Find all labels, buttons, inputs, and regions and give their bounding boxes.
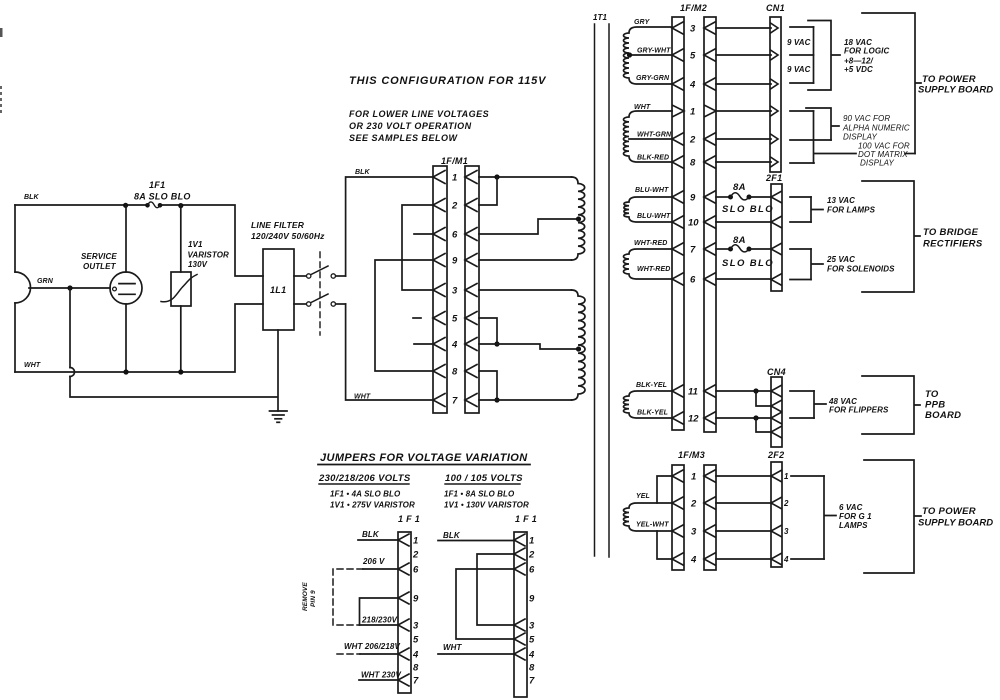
connector 1F/M3 right strip: [704, 465, 716, 570]
svg-text:FOR LOGIC: FOR LOGIC: [844, 47, 889, 56]
label TO POWER SUPPLY BOARD bottom: [918, 506, 993, 529]
svg-text:2: 2: [690, 499, 697, 510]
switch S2: [294, 294, 346, 306]
wire CN1 pin 5 right: [790, 54, 814, 56]
wire 2F1 pin 9 right: [790, 196, 811, 198]
svg-text:1: 1: [529, 536, 534, 547]
svg-text:4: 4: [528, 650, 535, 661]
svg-text:GRY-WHT: GRY-WHT: [637, 48, 671, 55]
svg-text:REMOVE: REMOVE: [302, 582, 309, 611]
svg-text:+5 VDC: +5 VDC: [844, 65, 873, 74]
connector 1F/M3 left strip: [672, 465, 684, 570]
connector 1F1 left pin numbers: [412, 536, 419, 687]
svg-text:SEE SAMPLES BELOW: SEE SAMPLES BELOW: [349, 133, 459, 143]
wire CN1 pin 2 right: [790, 139, 831, 141]
svg-text:2: 2: [689, 135, 696, 146]
bracket 90VAC: [806, 108, 839, 140]
svg-text:BLK: BLK: [443, 531, 461, 540]
svg-text:BLK: BLK: [355, 169, 371, 176]
primary winding upper: [572, 177, 585, 260]
svg-text:1F/M2: 1F/M2: [680, 3, 707, 13]
wire 1F/M2 pin 5 to CN1: [716, 50, 778, 60]
svg-text:6 VAC: 6 VAC: [839, 503, 863, 512]
jumper 1F/M3 pins 1-2: [657, 476, 672, 503]
svg-text:8A: 8A: [733, 182, 746, 193]
secondary winding WHT-RED: [624, 249, 673, 279]
wire 1F/M3 pin 3 to 2F2: [716, 530, 771, 532]
tap GRY-WHT: [627, 52, 672, 57]
secondary winding YEL: [624, 503, 673, 531]
svg-text:9: 9: [529, 594, 535, 605]
svg-text:WHT: WHT: [443, 643, 463, 652]
subtitle lower line voltages: [349, 109, 489, 143]
svg-text:1V1 • 275V VARISTOR: 1V1 • 275V VARISTOR: [330, 501, 415, 510]
branch CN4 pin 4: [756, 418, 771, 432]
lead dot matrix to bracket: [905, 153, 915, 155]
connector 1F/M1 left strip: [433, 166, 447, 413]
svg-text:1F1 • 8A SLO BLO: 1F1 • 8A SLO BLO: [444, 490, 515, 499]
wire 206V pin 6: [363, 568, 398, 570]
svg-text:DISPLAY: DISPLAY: [860, 159, 894, 168]
svg-text:FOR SOLENOIDS: FOR SOLENOIDS: [827, 265, 895, 274]
svg-text:9 VAC: 9 VAC: [787, 38, 811, 47]
bracket 25VAC: [811, 249, 823, 280]
svg-text:1F/M3: 1F/M3: [678, 450, 705, 460]
svg-text:2: 2: [528, 550, 535, 561]
svg-text:5: 5: [452, 314, 458, 325]
connector 1F/M3 pin numbers: [690, 472, 697, 566]
label 6 VAC FOR G1 LAMPS: [839, 503, 872, 530]
label 48VAC FOR FLIPPERS: [828, 397, 889, 415]
svg-text:2: 2: [412, 550, 419, 561]
svg-text:GRY-GRN: GRY-GRN: [636, 75, 670, 82]
svg-text:206 V: 206 V: [362, 557, 385, 566]
svg-text:2F1: 2F1: [765, 173, 782, 183]
wire BLK top: [15, 203, 263, 276]
wire 1F/M2 pin 4 to CN1: [716, 79, 778, 89]
svg-text:1: 1: [413, 536, 418, 547]
wire GRN: [29, 285, 278, 397]
connector 1F/M1 right strip: [465, 166, 479, 413]
secondary winding BLK-YEL: [623, 391, 672, 418]
wire 1F/M2 pin 1 to CN1: [716, 106, 778, 116]
stub 1F/M1 pin 4: [414, 343, 433, 345]
label TO PPB BOARD: [925, 389, 961, 421]
connector 1F/M1 pin numbers: [451, 173, 458, 407]
secondary winding WHT: [624, 111, 673, 162]
svg-text:BLK: BLK: [362, 530, 380, 539]
label 13 VAC FOR LAMPS: [827, 196, 876, 215]
svg-text:WHT-RED: WHT-RED: [634, 240, 667, 247]
wire 1F/M2 pin 6 to 2F1: [716, 278, 771, 280]
svg-text:3: 3: [529, 621, 535, 632]
svg-text:4: 4: [690, 555, 697, 566]
wire 1F/M2 pin 2 to CN1: [716, 134, 778, 144]
label SERVICE OUTLET: [81, 252, 117, 271]
svg-text:LINE FILTER: LINE FILTER: [251, 220, 305, 230]
svg-text:7: 7: [452, 396, 458, 407]
svg-text:2F2: 2F2: [767, 450, 784, 460]
jumper right pins 6-5: [456, 569, 514, 639]
svg-text:1: 1: [784, 472, 789, 481]
svg-text:ALPHA NUMERIC: ALPHA NUMERIC: [842, 124, 910, 133]
wire BLK to left 1F1 pin 1: [358, 539, 398, 541]
svg-text:6: 6: [690, 275, 696, 286]
svg-text:VARISTOR: VARISTOR: [188, 251, 230, 260]
svg-text:6: 6: [529, 565, 535, 576]
svg-text:CN4: CN4: [767, 367, 786, 377]
svg-text:8A: 8A: [733, 235, 746, 246]
tap wire pin 4 to primary lower: [479, 344, 581, 352]
header 230/218/206 VOLTS: [318, 473, 411, 484]
svg-text:GRY: GRY: [634, 19, 651, 26]
fuse 1F1: [145, 202, 162, 208]
svg-text:1F1: 1F1: [149, 180, 165, 190]
wire CN1 pin 4 right: [790, 82, 814, 84]
svg-text:8: 8: [452, 367, 458, 378]
svg-text:7: 7: [690, 245, 696, 256]
wire 2F1 pin 10 right: [790, 221, 811, 223]
bracket TO POWER SUPPLY BOARD bottom: [864, 460, 921, 573]
svg-text:WHT-RED: WHT-RED: [637, 266, 670, 273]
svg-text:FOR G 1: FOR G 1: [839, 512, 872, 521]
tap wire pin 6 to primary upper: [479, 216, 581, 234]
wire WHT to 1F/M1 pin 7: [346, 304, 433, 400]
svg-text:OR 230 VOLT OPERATION: OR 230 VOLT OPERATION: [349, 121, 472, 131]
svg-text:GRN: GRN: [37, 278, 54, 285]
lead 100VAC: [814, 153, 856, 155]
dashed wire pin 6 left: [333, 569, 363, 625]
svg-text:FOR FLIPPERS: FOR FLIPPERS: [829, 406, 889, 415]
connector 1F/M2 middle strip: [704, 17, 716, 432]
wire WHT to right 1F1 pin 4: [438, 653, 514, 655]
svg-text:3: 3: [413, 621, 419, 632]
svg-text:3: 3: [452, 286, 458, 297]
wire WHT 230V pin 7: [359, 679, 398, 681]
wire pins 8-7 jumper: [479, 371, 500, 403]
connector 1F1 right strip: [514, 532, 527, 697]
svg-text:10: 10: [688, 218, 699, 229]
connector 1F/M2 pin numbers: [688, 24, 699, 425]
svg-text:SLO BLO: SLO BLO: [722, 258, 774, 269]
svg-text:PPB: PPB: [925, 400, 945, 411]
line filter 1L1: [263, 249, 294, 330]
jumper pins 1-2 right: [479, 177, 497, 205]
wire 2F1 pin 6 right: [790, 279, 811, 281]
svg-text:YEL: YEL: [636, 493, 650, 500]
svg-text:5: 5: [529, 635, 535, 646]
svg-text:WHT: WHT: [24, 362, 41, 369]
svg-text:90 VAC FOR: 90 VAC FOR: [843, 114, 890, 123]
svg-text:PIN 9: PIN 9: [310, 590, 317, 607]
label 1V1 VARISTOR 130V: [188, 240, 230, 269]
svg-text:4: 4: [412, 650, 419, 661]
svg-text:2: 2: [783, 499, 789, 508]
svg-text:7: 7: [413, 676, 419, 687]
svg-text:4: 4: [689, 80, 696, 91]
bracket 48VAC: [814, 391, 826, 418]
svg-text:DISPLAY: DISPLAY: [843, 133, 877, 142]
svg-text:1L1: 1L1: [270, 285, 286, 295]
varistor 1V1: [161, 205, 197, 372]
svg-text:1 F 1: 1 F 1: [398, 514, 420, 524]
connector CN1 strip: [770, 17, 781, 172]
primary winding lower: [572, 290, 586, 400]
svg-text:TO: TO: [925, 389, 939, 400]
svg-text:BLU-WHT: BLU-WHT: [635, 187, 669, 194]
svg-text:WHT-GRN: WHT-GRN: [637, 132, 672, 139]
svg-text:WHT 206/218V: WHT 206/218V: [344, 642, 400, 651]
svg-text:5: 5: [690, 51, 696, 62]
wire WHT pin 4 left: [360, 653, 398, 655]
wire pin 7 to primary: [479, 399, 572, 401]
svg-text:CN1: CN1: [766, 3, 785, 13]
svg-text:1: 1: [690, 107, 695, 118]
svg-text:3: 3: [691, 527, 697, 538]
svg-text:WHT 230V: WHT 230V: [361, 671, 401, 680]
svg-text:1V1 • 130V VARISTOR: 1V1 • 130V VARISTOR: [444, 501, 529, 510]
scan marks lower: [0, 86, 2, 113]
label TO POWER SUPPLY BOARD top: [918, 74, 993, 96]
label 90 VAC FOR ALPHA NUMERIC DISPLAY: [842, 114, 910, 142]
switch S1: [294, 266, 346, 278]
bracket 18VAC: [808, 21, 840, 91]
svg-text:TO POWER: TO POWER: [922, 506, 976, 517]
dashed interlock line: [319, 252, 321, 335]
bracket TO PPB BOARD: [862, 376, 920, 434]
svg-text:RECTIFIERS: RECTIFIERS: [923, 239, 983, 250]
wire pin 9 to primary: [479, 259, 572, 261]
svg-text:5: 5: [413, 635, 419, 646]
label LINE FILTER 120/240V 50/60Hz: [251, 220, 325, 241]
header 100/105 VOLTS: [445, 473, 523, 484]
svg-text:8: 8: [690, 158, 696, 169]
svg-text:4: 4: [783, 555, 789, 564]
svg-text:3: 3: [784, 527, 789, 536]
wire 1F/M2 pin 3 to CN1: [716, 23, 778, 33]
svg-text:9: 9: [690, 193, 696, 204]
svg-text:9: 9: [452, 256, 458, 267]
svg-text:BLK-YEL: BLK-YEL: [637, 410, 668, 417]
branch CN4 pin 2: [756, 391, 771, 406]
connector 1F/M2 left strip: [672, 17, 684, 430]
svg-text:1: 1: [691, 472, 696, 483]
wire CN1 pin 3 right: [790, 26, 814, 28]
svg-text:13 VAC: 13 VAC: [827, 196, 855, 205]
svg-text:7: 7: [529, 676, 535, 687]
wire pins 5-4 jumper: [479, 318, 500, 347]
svg-text:FOR LAMPS: FOR LAMPS: [827, 206, 876, 215]
wire 1F/M2 pin 7 to fuse: [716, 248, 728, 250]
wire BLK to right 1F1 pin 1: [438, 540, 514, 542]
svg-text:SUPPLY BOARD: SUPPLY BOARD: [918, 518, 993, 529]
svg-text:100 / 105 VOLTS: 100 / 105 VOLTS: [445, 473, 523, 484]
svg-text:FOR LOWER LINE VOLTAGES: FOR LOWER LINE VOLTAGES: [349, 109, 489, 119]
scan mark top: [0, 28, 3, 37]
transformer core lines: [595, 24, 610, 557]
svg-text:TO BRIDGE: TO BRIDGE: [923, 227, 979, 238]
bracket TO POWER SUPPLY BOARD top: [862, 13, 921, 154]
svg-text:9 VAC: 9 VAC: [787, 65, 811, 74]
svg-text:120/240V 50/60Hz: 120/240V 50/60Hz: [251, 231, 325, 241]
wire 1F/M2 pin 10 to 2F1: [716, 221, 771, 223]
connector 2F2 pin numbers: [783, 472, 789, 564]
bracket TO BRIDGE RECTIFIERS: [862, 181, 920, 292]
label 18 VAC FOR LOGIC: [844, 38, 889, 74]
title JUMPERS FOR VOLTAGE VARIATION: [318, 452, 530, 465]
svg-text:YEL-WHT: YEL-WHT: [636, 522, 669, 529]
bracket 6VAC: [824, 476, 836, 559]
svg-text:1V1: 1V1: [188, 240, 203, 249]
svg-text:1 F 1: 1 F 1: [515, 514, 537, 524]
bracket 13VAC: [811, 197, 823, 222]
wire BLK to 1F/M1 pin 1: [346, 177, 433, 276]
svg-text:JUMPERS FOR VOLTAGE VARIATION: JUMPERS FOR VOLTAGE VARIATION: [320, 452, 528, 464]
svg-text:LAMPS: LAMPS: [839, 521, 868, 530]
svg-text:1T1: 1T1: [593, 13, 608, 22]
svg-text:BOARD: BOARD: [925, 410, 961, 421]
jumper 1F/M1 pins 2-3: [402, 205, 433, 290]
bracket 100VAC pins 1-8: [813, 111, 815, 163]
svg-text:BLK-RED: BLK-RED: [637, 155, 669, 162]
wire pin 9 jumper left: [360, 598, 399, 625]
stub 1F/M1 pin 6: [414, 233, 433, 235]
jumper 1F/M3 pins 3-4: [657, 531, 672, 559]
svg-text:230/218/206 VOLTS: 230/218/206 VOLTS: [318, 473, 411, 484]
svg-text:9: 9: [413, 594, 419, 605]
dash 1F/M1 pin 5: [413, 317, 421, 319]
wire CN1 pin 1 right: [790, 110, 814, 112]
svg-text:BLK-YEL: BLK-YEL: [636, 382, 667, 389]
svg-text:SERVICE: SERVICE: [81, 252, 117, 261]
jumper 1F/M1 pins 9-8: [375, 260, 433, 371]
svg-text:218/230V: 218/230V: [361, 616, 398, 625]
connector 1F1 right pin numbers: [528, 536, 535, 687]
svg-text:2: 2: [451, 201, 458, 212]
jumper right pins 2-3: [477, 554, 514, 625]
svg-text:SLO BLO: SLO BLO: [722, 204, 774, 215]
wire CN4 pin 1 right: [790, 390, 814, 392]
wire pin 3 to primary lower: [479, 289, 572, 291]
svg-text:11: 11: [688, 387, 698, 398]
fuse 2F1-A 8A: [728, 193, 771, 200]
svg-text:TO POWER: TO POWER: [922, 74, 976, 85]
svg-text:6: 6: [452, 230, 458, 241]
svg-text:WHT: WHT: [354, 394, 371, 401]
tap WHT-GRN: [629, 138, 672, 140]
connector CN4 strip: [771, 377, 782, 447]
svg-text:25 VAC: 25 VAC: [826, 255, 855, 264]
svg-text:SUPPLY BOARD: SUPPLY BOARD: [918, 85, 993, 96]
svg-text:OUTLET: OUTLET: [83, 262, 117, 271]
svg-text:1: 1: [452, 173, 457, 184]
svg-text:130V: 130V: [188, 260, 208, 269]
wire 1F/M3 pin 2 to 2F2: [716, 502, 771, 504]
wire 1F/M2 pin 9 to fuse: [716, 196, 728, 198]
wire 2F2 pin 1 right: [791, 475, 824, 477]
wire 2F2 pin 4 right: [791, 558, 824, 560]
svg-text:BLU-WHT: BLU-WHT: [637, 213, 671, 220]
service outlet: [110, 205, 142, 372]
svg-text:8: 8: [529, 663, 535, 674]
fuse 2F1-B 8A: [728, 245, 771, 252]
wire 1F/M3 pin 1 to 2F2: [716, 475, 771, 477]
wire 1F/M2 pin 8 to CN1: [716, 157, 778, 167]
svg-text:12: 12: [688, 414, 699, 425]
connector 2F1 strip: [771, 184, 782, 291]
svg-text:3: 3: [690, 24, 696, 35]
AC plug P1: [15, 205, 31, 372]
wire 2F1 pin 7 right: [790, 248, 811, 250]
connector 1F1 left strip: [398, 532, 411, 693]
secondary winding GRY: [624, 27, 673, 84]
svg-text:8A SLO BLO: 8A SLO BLO: [134, 192, 191, 202]
ground: [270, 330, 288, 422]
svg-text:1F1 • 4A SLO BLO: 1F1 • 4A SLO BLO: [330, 490, 401, 499]
svg-text:8: 8: [413, 663, 419, 674]
wire WHT bottom: [15, 304, 263, 375]
svg-text:1F/M1: 1F/M1: [441, 156, 468, 166]
label TO BRIDGE RECTIFIERS: [923, 227, 983, 250]
label 25 VAC FOR SOLENOIDS: [826, 255, 895, 274]
label 100 VAC FOR DOT MATRIX DISPLAY: [858, 142, 910, 168]
wire 1F/M3 pin 4 to 2F2: [716, 558, 771, 560]
wire pin 1 to primary: [479, 174, 572, 179]
svg-text:BLK: BLK: [24, 194, 40, 201]
label REMOVE PIN 9: [302, 582, 317, 611]
svg-text:6: 6: [413, 565, 419, 576]
wire CN4 pin 3 right: [790, 417, 814, 419]
wire 1F/M2 pin 12 to CN4: [716, 415, 771, 420]
connector 2F2 strip: [771, 462, 782, 567]
wire 1F/M2 pin 11 to CN4: [716, 388, 771, 393]
wire 218/230V pin 3: [360, 624, 399, 626]
bracket 9VAC pins 3-5-4: [813, 27, 815, 83]
svg-text:THIS CONFIGURATION FOR 115V: THIS CONFIGURATION FOR 115V: [349, 75, 547, 87]
svg-text:WHT: WHT: [634, 104, 651, 111]
wire CN1 pin 8 right: [790, 162, 814, 164]
svg-text:4: 4: [451, 340, 458, 351]
secondary winding BLU-WHT: [624, 197, 672, 222]
